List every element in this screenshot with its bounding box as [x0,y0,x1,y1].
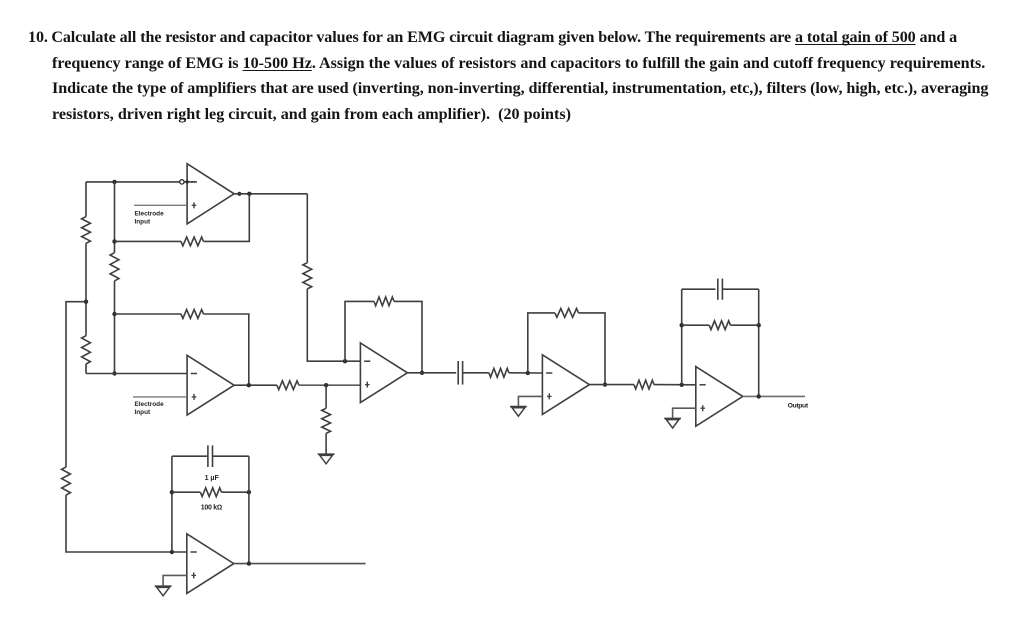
node junction rail-C / U2 minus line [112,371,116,375]
resistor R4 (U3 plus to ground) [322,408,331,433]
wire feedback row U2 right [204,314,249,385]
op-amp U3 (difference amplifier) [360,343,407,403]
ground symbol at U5 plus input [664,417,681,419]
resistor RG (gain set) [110,253,119,281]
node junction U5 minus / feedback [680,383,684,387]
resistor R10 (U5 feedback) [709,321,730,330]
wire rail to U3 minus corner [307,289,360,361]
wire U5 cap row left [682,288,716,290]
ground symbol at U4 plus input [510,406,527,408]
ground symbol at U6 plus input [155,585,172,587]
wire U1 plus-input electrode lead [134,204,187,206]
node junction U3 output / feedback [420,371,424,375]
wire rail-B lower segment [85,364,87,374]
wire U6 resistor row left [172,491,201,493]
wire U3 feedback right leg [394,301,422,372]
op-amp U4 (inverting amplifier) [542,355,589,415]
resistor R6 (U3 feedback) [374,297,394,306]
node junction U3 minus / feedback [343,359,347,363]
svg-text:Electrode: Electrode [135,401,165,408]
capacitor C2 (U5 feedback) [717,279,719,300]
wire U6 resistor row right [222,491,249,493]
wire rail-B upper segment [85,182,87,217]
node junction rail-C top [112,180,116,184]
wire U5 feedback right leg [758,289,760,396]
wire U5 resistor row left [682,324,710,326]
wire U5 feedback left leg [681,289,683,385]
wire rail-C lower segment [114,281,116,374]
resistor Ra2 (averaging) [82,336,91,364]
wire U3 feedback loop [345,301,374,361]
wire U4 feedback loop [528,313,555,373]
resistor R2a (U1 feedback) [181,237,204,246]
wire U2 output segment [234,384,277,386]
wire U5 cap row right [722,288,758,290]
node junction U6 feedback resistor right [247,490,251,494]
node junction U2 output / feedback [247,383,251,387]
node junction U4 minus / feedback [526,371,530,375]
wire rail-B middle segment [85,243,87,335]
wire resistor to ground [325,433,327,453]
op-amp U2 (electrode buffer 2) [187,355,234,415]
node junction averaging midpoint [84,300,88,304]
wire U6 cap row right [213,455,249,457]
wire U1-output rail down [306,194,308,263]
wire U2 inverting-input line [86,373,187,375]
wire U4 plus-input stub [518,396,542,406]
resistor R2b (U2 feedback) [181,310,204,319]
wire U6 plus-input stub [163,575,187,585]
capacitor C1 (coupling) [457,361,459,385]
wire U6 cap row left [172,455,208,457]
wire U5 output lead [743,395,805,397]
wire U4 feedback right leg [579,313,606,385]
resistor R7 (U4 input) [489,368,509,377]
wire U6 output lead [234,563,366,565]
resistor R5 (U3 minus input) [303,263,312,289]
wire DRL rail to U6 minus [66,495,187,552]
wire U6 feedback right leg [248,456,250,563]
resistor R8 (U4 feedback) [555,309,579,318]
wire op1 inverting-input line [86,181,179,183]
wire feedback row U1 right [204,194,250,242]
pin dot U1 output [237,192,241,196]
svg-text:Input: Input [135,409,151,416]
wire R9 to U5 minus input [654,384,696,386]
svg-text:100 kΩ: 100 kΩ [201,504,222,511]
wire down to ground resistor [325,385,327,408]
wire R7 to U4 minus input [509,372,543,374]
svg-text:Output: Output [788,402,809,409]
node junction U6 minus / feedback [170,550,174,554]
wire U3 output to coupling cap [407,372,456,374]
pin dot U1 inverting input [185,180,188,183]
node junction rail-C / feedback R2a [112,239,116,243]
wire U6 feedback left leg [171,456,173,552]
node junction rail-C / feedback R2b [112,312,116,316]
svg-text:1 µF: 1 µF [205,475,220,482]
wire U4 output segment [589,384,634,386]
wire U5 plus-input stub [673,408,696,418]
wire U2 plus-input electrode lead [133,396,187,398]
wire DRL feed rail [66,302,86,467]
node junction U6 output / feedback [247,561,251,565]
wire feedback row U2 left [115,313,182,315]
node junction U1 output / feedback [247,192,251,196]
wire feedback row U1 left [115,240,182,242]
node junction U5 output / feedback [757,394,761,398]
wire R3 to U3 plus input [299,384,361,386]
open pin circle at U1 inverting input [180,180,184,184]
wire U5 resistor row right [730,324,758,326]
svg-text:Electrode: Electrode [135,210,165,217]
resistor R11 (DRL series) [62,467,71,495]
resistor R12 (DRL feedback 100k) [200,488,221,497]
node junction U6 feedback resistor left [170,490,174,494]
wire rail-C upper segment [114,182,116,253]
node junction U3 plus / ground resistor [324,383,328,387]
op-amp U1 (electrode buffer 1) [187,164,234,224]
op-amp U5 (output low-pass amplifier) [696,367,743,427]
node junction U5 feedback resistor left [680,323,684,327]
resistor R9 (U5 input) [634,380,654,389]
wire cap to R7 [463,372,489,374]
node junction U5 feedback resistor right [757,323,761,327]
ground symbol below R4 [318,453,335,455]
resistor R3 (to U3 plus input) [277,381,299,390]
svg-text:Input: Input [135,218,151,225]
op-amp U6 (driven right leg) [187,534,234,594]
node junction U4 output / feedback [603,382,607,386]
resistor Ra1 (averaging) [82,217,91,244]
capacitor C3 (DRL feedback 1uF) [207,445,209,467]
wire U1 output to rail [234,193,307,195]
